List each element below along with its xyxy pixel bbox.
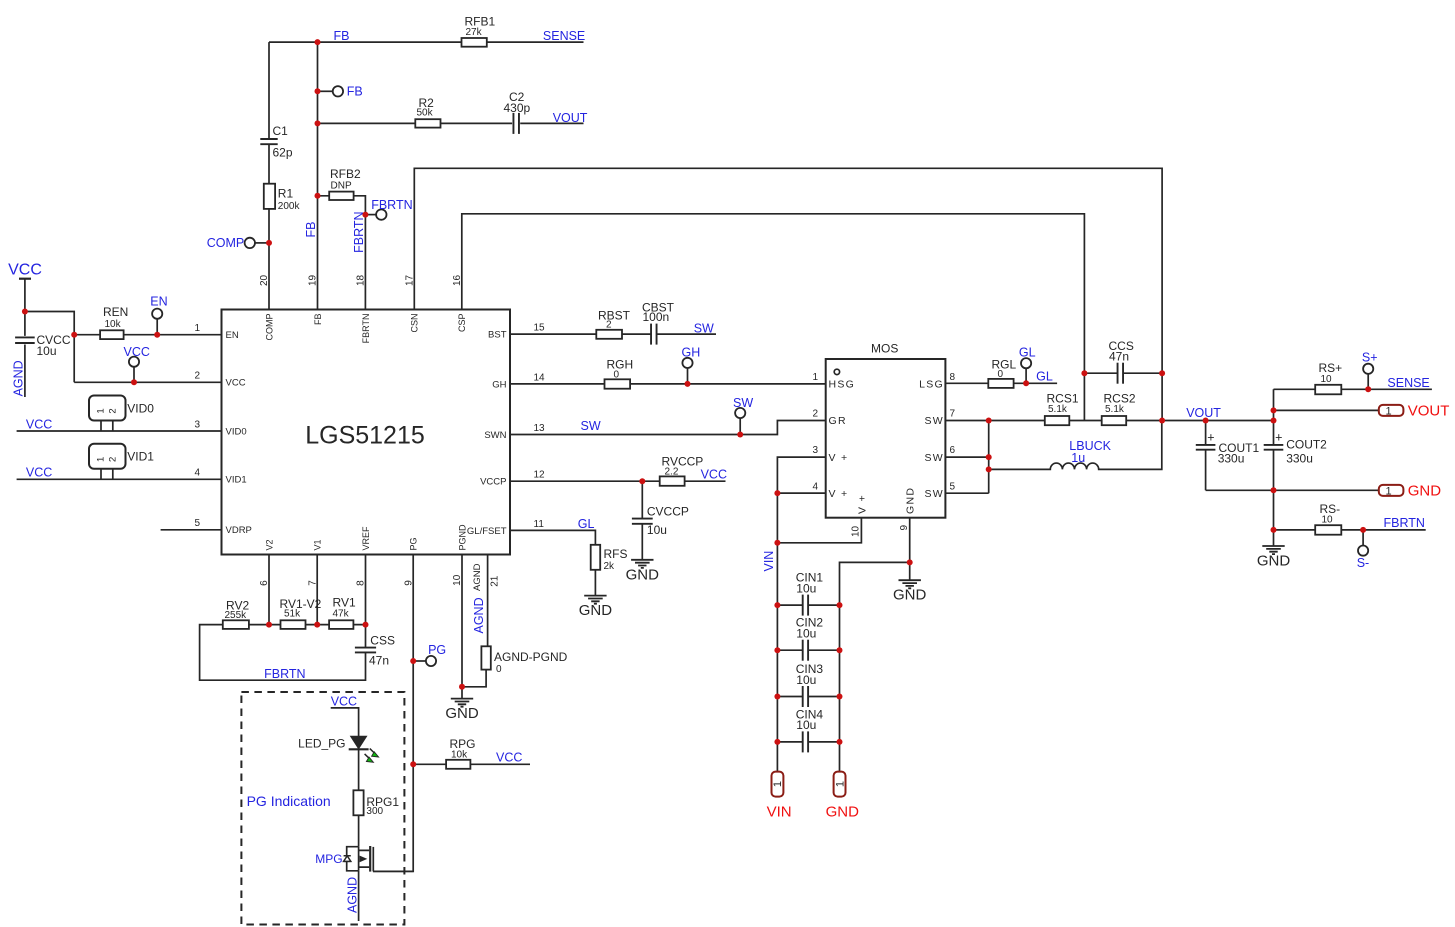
svg-text:AGND: AGND <box>472 597 486 633</box>
wire FB net top <box>269 41 584 43</box>
svg-text:GND: GND <box>1408 482 1442 499</box>
resistor RBST <box>596 330 622 339</box>
svg-text:10u: 10u <box>796 581 816 595</box>
wire VCCP pin12 <box>510 480 726 482</box>
svg-text:LGS51215: LGS51215 <box>305 422 425 450</box>
svg-text:RGH: RGH <box>607 358 634 372</box>
svg-text:VID0: VID0 <box>226 426 247 437</box>
wire RPG1 to MPG <box>358 815 360 846</box>
wire VID1 pin4 <box>17 469 222 480</box>
svg-text:MPG: MPG <box>315 852 342 866</box>
svg-text:10: 10 <box>1321 374 1333 385</box>
svg-text:2: 2 <box>194 371 200 382</box>
U1 left pin numbers <box>194 323 200 529</box>
power VCC top-left <box>19 278 31 280</box>
svg-text:21: 21 <box>490 575 501 587</box>
svg-text:GND: GND <box>1257 553 1291 570</box>
svg-text:GH: GH <box>492 379 506 390</box>
wire EN pin1 <box>74 334 221 336</box>
svg-text:RBST: RBST <box>598 309 631 323</box>
svg-text:7: 7 <box>950 409 956 420</box>
svg-text:12: 12 <box>534 470 546 481</box>
U1 right pin numbers <box>534 323 546 530</box>
svg-text:2k: 2k <box>604 561 616 572</box>
svg-text:VDRP: VDRP <box>226 525 252 536</box>
svg-text:1: 1 <box>812 372 818 383</box>
svg-text:MOS: MOS <box>871 342 898 356</box>
ground GND at RFS <box>584 596 606 604</box>
pin S+ circle <box>1363 364 1373 374</box>
svg-text:0: 0 <box>496 664 502 675</box>
wire MOS SW pins <box>945 421 988 494</box>
pin GH circle <box>682 358 692 368</box>
IC U1 LGS51215 body <box>222 310 511 555</box>
svg-text:SW: SW <box>924 415 944 427</box>
svg-text:10k: 10k <box>105 319 122 330</box>
svg-text:5: 5 <box>194 518 200 529</box>
svg-text:SW: SW <box>581 419 601 433</box>
svg-text:9: 9 <box>899 525 910 531</box>
pin SW circle <box>735 408 745 418</box>
svg-text:GND: GND <box>893 587 927 604</box>
svg-text:V +: V + <box>856 494 868 514</box>
capacitor CIN1 <box>777 604 839 606</box>
resistor RFB1 <box>462 38 487 47</box>
wire AGND pin21 <box>462 555 488 687</box>
wire MOS pin10 V+ <box>777 518 861 543</box>
svg-text:VCC: VCC <box>26 417 52 431</box>
wire MOS pin9 GND <box>840 518 910 772</box>
svg-text:1: 1 <box>1385 486 1391 498</box>
transistor MPG <box>347 847 359 871</box>
resistor RVCCP <box>660 476 685 485</box>
svg-text:HSG: HSG <box>829 378 856 390</box>
resistor RS+ <box>1315 385 1341 395</box>
svg-text:CSP: CSP <box>457 314 467 333</box>
svg-text:CSN: CSN <box>410 314 420 333</box>
svg-text:1: 1 <box>96 408 107 413</box>
ground GND at CVCCP <box>631 560 653 568</box>
svg-text:PG: PG <box>409 537 419 550</box>
svg-text:AGND: AGND <box>472 563 483 591</box>
svg-text:10: 10 <box>1322 514 1334 525</box>
svg-text:VOUT: VOUT <box>1186 406 1221 420</box>
svg-text:1u: 1u <box>1071 451 1085 465</box>
svg-text:PGND: PGND <box>457 524 467 551</box>
resistor RGH <box>605 379 631 388</box>
svg-text:VCCP: VCCP <box>480 477 506 488</box>
wire MPG source to AGND <box>358 871 360 921</box>
resistor AGND-PGND <box>481 646 490 669</box>
svg-text:VCC: VCC <box>26 466 52 480</box>
svg-text:GND: GND <box>905 487 917 514</box>
svg-text:SWN: SWN <box>484 430 506 441</box>
svg-text:6: 6 <box>950 445 956 456</box>
svg-text:V2: V2 <box>264 539 274 550</box>
svg-text:FB: FB <box>304 222 318 238</box>
capacitor C1 <box>260 138 277 140</box>
capacitor CIN3 <box>777 696 839 698</box>
capacitor CIN4 <box>777 741 839 743</box>
wire CSN loop <box>414 168 1162 373</box>
svg-text:VREF: VREF <box>361 526 371 551</box>
svg-text:5.1k: 5.1k <box>1105 404 1125 415</box>
pin COMP circle <box>245 238 255 248</box>
resistor RFS <box>591 545 601 570</box>
svg-text:2.2: 2.2 <box>665 466 679 477</box>
svg-text:3: 3 <box>194 419 200 430</box>
wire PG pin9 column <box>373 555 413 872</box>
resistor RV1-V2 <box>281 620 306 629</box>
svg-text:51k: 51k <box>284 609 301 620</box>
resistor R1 <box>264 184 275 209</box>
svg-text:330u: 330u <box>1286 451 1313 465</box>
svg-text:SENSE: SENSE <box>1387 376 1429 390</box>
resistor R2 <box>415 119 440 127</box>
svg-text:FB: FB <box>347 84 363 98</box>
capacitor C2 <box>512 113 514 134</box>
pin EN circle <box>152 309 162 319</box>
svg-text:10u: 10u <box>796 627 816 641</box>
svg-text:0: 0 <box>614 369 620 380</box>
svg-text:27k: 27k <box>466 27 483 38</box>
capacitor CBST <box>650 324 652 345</box>
capacitor CVCCP <box>632 518 653 520</box>
svg-text:PG: PG <box>428 643 446 657</box>
wire VCC pin2 <box>74 381 221 383</box>
svg-text:RFS: RFS <box>604 547 628 561</box>
svg-text:VID1: VID1 <box>226 475 247 486</box>
resistor RFB2 <box>318 196 366 310</box>
wire FBRTN loop bottom <box>200 625 366 681</box>
svg-text:10u: 10u <box>647 523 667 537</box>
svg-text:RFB2: RFB2 <box>330 167 361 181</box>
svg-text:CSS: CSS <box>370 634 395 648</box>
svg-text:LED_PG: LED_PG <box>298 737 345 751</box>
svg-text:2: 2 <box>107 408 118 413</box>
svg-text:VCC: VCC <box>226 378 246 389</box>
node FB riser wire <box>317 42 319 309</box>
svg-text:200k: 200k <box>278 201 301 212</box>
resistor RS- <box>1315 525 1341 535</box>
svg-text:10u: 10u <box>37 344 57 358</box>
svg-text:VCC: VCC <box>496 751 522 765</box>
svg-text:2: 2 <box>107 457 118 462</box>
svg-text:SENSE: SENSE <box>543 29 585 43</box>
svg-text:C1: C1 <box>273 124 289 138</box>
svg-text:4: 4 <box>194 468 200 479</box>
svg-text:100n: 100n <box>643 310 670 324</box>
wire RV chain <box>249 624 366 626</box>
svg-text:SW: SW <box>924 488 944 500</box>
wire R2 C2 to VOUT <box>318 122 584 124</box>
svg-text:FB: FB <box>313 314 323 326</box>
wire PGND pin10 <box>461 555 463 699</box>
pin PG circle <box>413 660 426 662</box>
svg-text:GL/FSET: GL/FSET <box>467 526 507 537</box>
ground GND at PGND <box>451 699 473 707</box>
pin FBRTN circle <box>365 214 376 216</box>
wire SW to RCS chain <box>989 420 1274 422</box>
svg-text:DNP: DNP <box>331 180 352 191</box>
wire RS- line <box>1274 529 1426 531</box>
svg-text:3: 3 <box>812 445 818 456</box>
svg-text:50k: 50k <box>417 108 434 119</box>
svg-text:VCC: VCC <box>8 262 42 279</box>
svg-text:1: 1 <box>772 781 784 787</box>
ground GND at COUT <box>1273 530 1275 546</box>
pin VCC circle <box>129 357 139 367</box>
svg-text:R1: R1 <box>278 187 294 201</box>
svg-text:AGND: AGND <box>11 360 25 396</box>
resistor RV1 <box>329 620 353 629</box>
svg-text:S+: S+ <box>1362 350 1378 364</box>
svg-text:V1: V1 <box>313 539 323 550</box>
svg-text:4: 4 <box>812 481 818 492</box>
svg-text:5: 5 <box>950 481 956 492</box>
MPG body diode <box>344 856 351 862</box>
capacitor CSS <box>355 647 376 649</box>
svg-text:V +: V + <box>829 452 849 464</box>
svg-text:COMP: COMP <box>264 314 274 341</box>
terminal GND right <box>1379 485 1404 496</box>
svg-text:+: + <box>1207 431 1214 445</box>
resistor RCS1 <box>1045 416 1070 425</box>
wire BST pin15 <box>510 333 716 335</box>
svg-text:GND: GND <box>445 705 479 722</box>
svg-text:GR: GR <box>829 415 847 427</box>
svg-text:COMP: COMP <box>207 236 245 250</box>
capacitor CCS <box>1084 372 1162 374</box>
svg-text:1: 1 <box>834 781 846 787</box>
wire LSG RGL <box>945 382 1057 384</box>
svg-text:SW: SW <box>694 322 714 336</box>
svg-text:GND: GND <box>579 602 613 619</box>
pin FB circle <box>318 90 333 92</box>
inductor LBUCK <box>989 373 1162 469</box>
resistor RCS2 <box>1102 416 1127 425</box>
wire RS+ line <box>1274 388 1432 390</box>
svg-text:COUT2: COUT2 <box>1286 438 1327 452</box>
svg-text:VCC: VCC <box>701 468 727 482</box>
wire GL pin11 <box>510 530 595 595</box>
svg-text:1: 1 <box>194 323 200 334</box>
wire MPG gate <box>373 870 413 872</box>
svg-text:FBRTN: FBRTN <box>264 667 305 681</box>
svg-text:GND: GND <box>626 566 660 583</box>
wire RPG pin <box>413 763 530 765</box>
resistor RPG <box>446 760 470 769</box>
svg-text:300: 300 <box>366 806 383 817</box>
svg-text:14: 14 <box>534 372 546 383</box>
svg-text:VIN: VIN <box>767 804 792 821</box>
wire LED to RPG1 <box>358 749 360 790</box>
transistor block MOS body <box>826 359 946 518</box>
wire VCC to LED <box>331 708 359 736</box>
svg-text:AGND: AGND <box>345 877 359 913</box>
pin S- circle <box>1362 530 1364 546</box>
svg-text:11: 11 <box>534 519 545 530</box>
svg-text:VOUT: VOUT <box>553 111 588 125</box>
svg-text:10: 10 <box>851 525 862 537</box>
svg-text:GH: GH <box>682 345 701 359</box>
svg-text:PG Indication: PG Indication <box>247 793 331 809</box>
svg-text:0: 0 <box>998 369 1004 380</box>
wire VDRP pin5 <box>161 529 222 531</box>
svg-text:13: 13 <box>534 423 546 434</box>
U1 right pin names <box>467 330 507 537</box>
svg-text:GND: GND <box>826 804 860 821</box>
svg-text:47k: 47k <box>333 608 350 619</box>
svg-text:EN: EN <box>226 330 239 341</box>
svg-text:47n: 47n <box>369 653 389 667</box>
svg-text:VCC: VCC <box>124 345 150 359</box>
wire CSP loop <box>462 214 1085 421</box>
svg-text:VID0: VID0 <box>127 401 154 415</box>
svg-text:10k: 10k <box>451 749 468 760</box>
svg-text:SW: SW <box>924 452 944 464</box>
svg-text:8: 8 <box>950 372 956 383</box>
svg-text:VID1: VID1 <box>127 450 154 464</box>
U1 left pin names <box>226 330 252 536</box>
svg-text:GL: GL <box>1019 346 1036 360</box>
resistor RPG1 <box>353 790 363 815</box>
svg-text:10u: 10u <box>796 673 816 687</box>
svg-text:FB: FB <box>334 29 350 43</box>
svg-text:VCC: VCC <box>331 694 357 708</box>
svg-text:FBRTN: FBRTN <box>352 211 366 252</box>
resistor RGL <box>988 379 1013 388</box>
svg-text:GL: GL <box>1036 369 1053 383</box>
svg-text:10u: 10u <box>796 718 816 732</box>
svg-text:REN: REN <box>103 305 128 319</box>
wire GH pin14 <box>510 383 826 385</box>
svg-text:VOUT: VOUT <box>1408 402 1450 419</box>
svg-text:FBRTN: FBRTN <box>361 314 371 344</box>
svg-text:2: 2 <box>606 319 612 330</box>
svg-text:+: + <box>1275 431 1282 445</box>
MOS pin 1 HSG <box>834 369 839 374</box>
terminal VOUT <box>1274 409 1379 411</box>
jumper VID1 <box>89 444 126 469</box>
capacitor CVCC <box>15 336 35 338</box>
svg-text:SW: SW <box>733 396 753 410</box>
svg-text:RGL: RGL <box>992 358 1017 372</box>
svg-text:EN: EN <box>150 295 167 309</box>
svg-text:430p: 430p <box>504 101 531 115</box>
wire MOS V+ pins to VIN column <box>777 457 825 771</box>
svg-text:VIN: VIN <box>762 551 776 572</box>
terminal GND bottom <box>834 772 846 797</box>
svg-text:GL: GL <box>578 517 595 531</box>
svg-text:CVCCP: CVCCP <box>647 505 689 519</box>
svg-text:47n: 47n <box>1109 350 1129 364</box>
svg-text:LSG: LSG <box>919 378 944 390</box>
jumper VID0 <box>89 396 126 421</box>
svg-text:5.1k: 5.1k <box>1048 404 1068 415</box>
svg-text:FBRTN: FBRTN <box>371 198 412 212</box>
wire SWN pin13 <box>510 421 826 435</box>
pin GL circle <box>1021 358 1031 368</box>
wire GND output line <box>1206 489 1379 491</box>
svg-text:1: 1 <box>96 457 107 462</box>
LED light arrows <box>370 749 376 754</box>
dashed box PG Indication <box>241 692 404 925</box>
capacitor CIN2 <box>777 649 839 651</box>
LED LED_PG <box>351 736 367 748</box>
svg-text:15: 15 <box>534 323 546 334</box>
svg-text:255k: 255k <box>225 610 248 621</box>
svg-text:62p: 62p <box>273 146 293 160</box>
svg-text:BST: BST <box>488 330 507 341</box>
resistor RV2 <box>223 620 249 629</box>
svg-text:RS+: RS+ <box>1319 361 1343 375</box>
svg-text:FBRTN: FBRTN <box>1384 516 1425 530</box>
wire VCC rail left <box>25 279 74 397</box>
svg-text:AGND-PGND: AGND-PGND <box>494 650 568 664</box>
wire VID0 pin3 <box>17 421 222 432</box>
svg-text:V +: V + <box>829 488 849 500</box>
capacitor COUT1 <box>1205 421 1207 491</box>
svg-text:1: 1 <box>1385 406 1391 418</box>
ground GND at MOS pin9 <box>899 580 921 588</box>
wire C1 R1 column to COMP <box>268 42 270 309</box>
svg-text:330u: 330u <box>1218 451 1245 465</box>
capacitor COUT2 <box>1273 389 1275 530</box>
resistor REN <box>100 330 124 339</box>
wire V2 V1 VREF pins <box>269 555 366 625</box>
wire CVCCP branch <box>641 481 643 560</box>
terminal VIN bottom <box>772 772 784 797</box>
svg-text:2: 2 <box>812 409 818 420</box>
svg-text:S-: S- <box>1357 556 1370 570</box>
